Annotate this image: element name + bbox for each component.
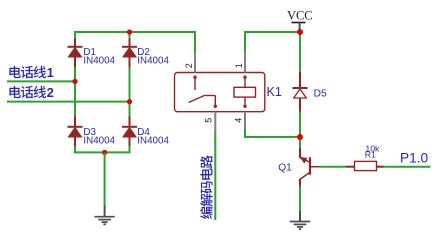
wire 电话线1 net [7,80,76,82]
label 编解码电路 (rotated) [200,207,213,219]
diode D2 [129,39,131,47]
wire relay pin 4 to Q1 collector [244,130,246,137]
wire 电话线2 net [7,101,131,103]
node junction bottom rail / ground [102,150,107,155]
diode D5 [299,72,301,88]
svg-text:D5: D5 [314,88,327,99]
relay pin 4 stub [244,112,246,131]
label net 电话线1 [9,66,20,78]
svg-text:IN4004: IN4004 [137,135,169,146]
svg-text:4: 4 [234,118,244,123]
svg-text:P1.0: P1.0 [400,151,429,166]
wire VCC column [299,31,301,72]
svg-text:1: 1 [47,65,54,80]
relay coil [243,76,246,79]
diode D4 [129,117,131,127]
node junction D2 top rail [127,29,132,34]
wire D5 to Q1 [299,112,301,149]
svg-text:Q1: Q1 [278,163,292,174]
svg-text:IN4004: IN4004 [83,135,115,146]
svg-text:2: 2 [47,85,54,100]
wire top rail (D1/D2 anodes to relay pin 2) [75,31,195,33]
wire Q1 base to R1 [310,166,320,168]
diode D1 [74,39,76,47]
svg-text:K1: K1 [267,85,282,99]
svg-text:R1: R1 [365,150,376,160]
relay pin 1 stub [244,52,246,73]
wire R1 to P1.0 [384,166,431,168]
node junction VCC [297,29,303,35]
wire relay pin 5 to encoder circuit [214,131,216,220]
relay switch contact [193,76,196,79]
ground (Q1) [290,221,310,223]
relay pin 5 stub [214,112,216,132]
label net 电话线2 [9,86,20,98]
wire relay pin1 to VCC [244,31,300,33]
relay pin 2 stub [194,52,196,73]
diode D3 [74,117,76,127]
relay K1 box [175,73,265,112]
transistor Q1 [299,148,301,158]
svg-text:IN4004: IN4004 [137,56,169,67]
wire Q1 emitter to ground [299,186,301,212]
svg-text:VCC: VCC [287,9,313,23]
svg-text:IN4004: IN4004 [83,56,115,67]
svg-text:5: 5 [204,118,214,123]
node junction 电话线1 / D1 column [72,79,77,84]
wire bottom rail (D3/D4) [74,151,131,153]
node junction Q1 collector [297,134,303,140]
ground (bridge) [94,216,114,218]
svg-text:1: 1 [234,63,244,68]
wire ground drop [104,152,106,206]
resistor R1 [346,166,355,168]
power VCC [292,22,306,24]
svg-text:2: 2 [184,63,194,68]
node junction 电话线2 / D2 column [127,99,132,104]
